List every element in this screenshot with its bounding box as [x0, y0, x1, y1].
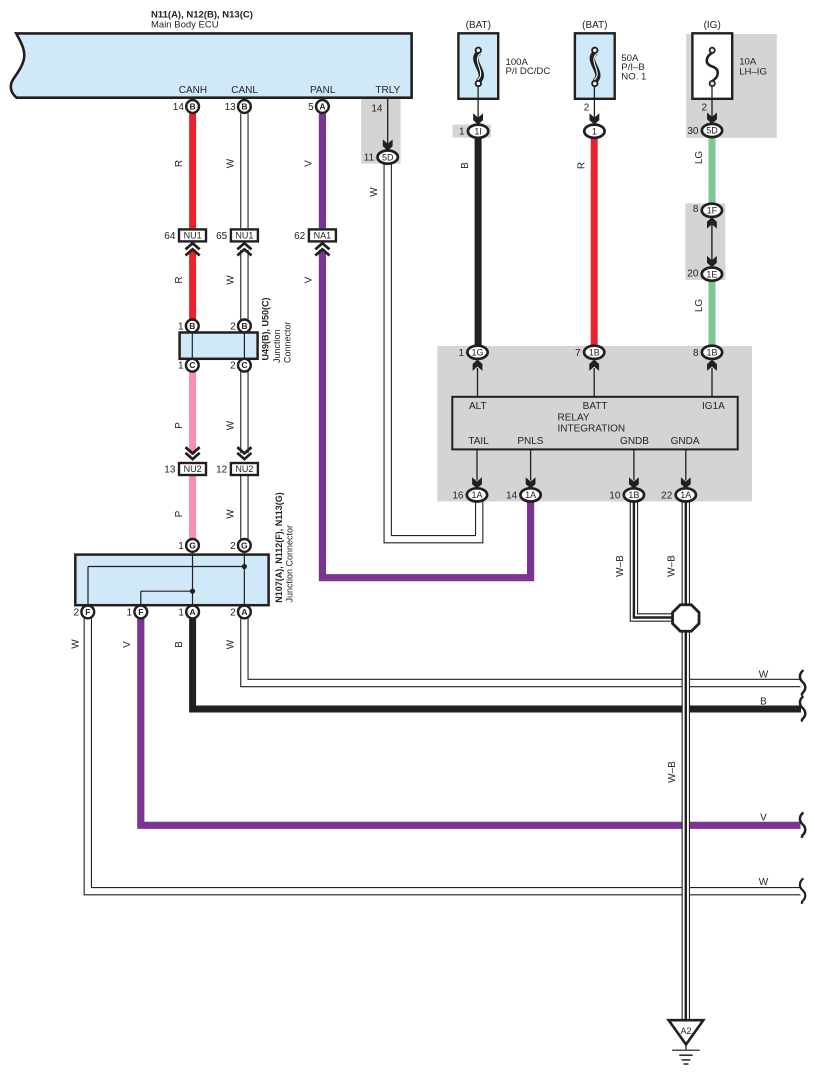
- wire W-B from GNDA to splice: [682, 501, 689, 605]
- fuse F2 lead wire: [593, 86, 595, 118]
- svg-text:2: 2: [584, 103, 590, 114]
- svg-text:62: 62: [294, 231, 306, 242]
- svg-text:1I: 1I: [474, 126, 482, 136]
- break symbol B: [800, 696, 805, 721]
- svg-text:8: 8: [693, 204, 699, 215]
- svg-text:1E: 1E: [706, 269, 717, 279]
- svg-text:NO. 1: NO. 1: [621, 71, 646, 82]
- relay GNDA lead and arrowhead: [681, 449, 691, 488]
- wire CANH red upper segment: [189, 113, 196, 228]
- svg-text:NU1: NU1: [235, 231, 253, 241]
- svg-text:1: 1: [178, 541, 184, 552]
- svg-text:1: 1: [459, 127, 465, 138]
- svg-text:1B: 1B: [628, 490, 639, 500]
- svg-text:Connector: Connector: [283, 321, 293, 363]
- connector oval 1B IG1A: [693, 346, 722, 359]
- svg-text:64: 64: [164, 231, 176, 242]
- svg-text:R: R: [174, 160, 185, 167]
- ECU pin 5 A: [308, 100, 329, 113]
- wire CANL white upper segment: [241, 113, 248, 319]
- svg-text:13: 13: [164, 464, 176, 475]
- gray shade TRLY connector area: [361, 99, 400, 164]
- svg-text:8: 8: [693, 348, 699, 359]
- svg-text:V: V: [304, 160, 315, 167]
- connector oval 1G ALT: [458, 346, 487, 359]
- svg-text:Main Body ECU: Main Body ECU: [151, 20, 219, 31]
- svg-text:GNDB: GNDB: [620, 436, 649, 447]
- svg-text:W–B: W–B: [615, 555, 626, 577]
- svg-text:IG1A: IG1A: [702, 401, 725, 412]
- wire fuse F2 red to BATT: [591, 137, 598, 346]
- svg-text:B: B: [760, 697, 767, 708]
- svg-text:22: 22: [661, 490, 673, 501]
- svg-text:PANL: PANL: [310, 85, 336, 96]
- gray shade band connector 1I: [453, 125, 491, 138]
- svg-text:W: W: [71, 639, 82, 649]
- break symbol W bottom: [800, 878, 805, 903]
- svg-text:20: 20: [687, 269, 699, 280]
- svg-text:BATT: BATT: [583, 401, 608, 412]
- wire V from 1F bottom run: [141, 618, 801, 825]
- svg-text:2: 2: [701, 103, 707, 114]
- N107 pin 1 F: [127, 606, 148, 619]
- svg-text:14: 14: [506, 490, 518, 501]
- U49 pin 1 B: [178, 320, 199, 333]
- svg-text:B: B: [174, 641, 185, 648]
- N107 pin 2 A: [230, 606, 251, 619]
- gray shade relay integration area: [437, 346, 752, 502]
- fuse F3 element: [707, 48, 718, 86]
- wire W from 2F bottom run: [84, 618, 800, 895]
- svg-text:W: W: [759, 669, 769, 680]
- svg-text:V: V: [122, 641, 133, 648]
- svg-text:2: 2: [74, 607, 80, 618]
- svg-text:65: 65: [216, 231, 228, 242]
- connector NU2 pin 12: [216, 447, 258, 475]
- svg-text:INTEGRATION: INTEGRATION: [558, 423, 626, 434]
- wire CANL white mid segments: [241, 371, 248, 539]
- svg-text:A2: A2: [680, 1026, 691, 1036]
- svg-text:A: A: [190, 607, 196, 617]
- svg-text:W: W: [226, 275, 237, 285]
- svg-text:V: V: [760, 813, 767, 824]
- svg-text:W–B: W–B: [667, 555, 678, 577]
- svg-text:CANH: CANH: [179, 85, 207, 96]
- connector NU1 pin 64: [164, 229, 206, 255]
- svg-text:B: B: [241, 321, 247, 331]
- connector NA1 pin 62: [294, 229, 336, 255]
- svg-text:N107(A), N112(F), N113(G): N107(A), N112(F), N113(G): [274, 492, 284, 603]
- svg-text:A: A: [241, 607, 247, 617]
- svg-text:NU2: NU2: [184, 464, 202, 474]
- gray shade connectors 1F-1E area: [685, 203, 725, 280]
- U50 pin 2 C: [230, 359, 251, 372]
- connector oval 1E: [687, 268, 722, 281]
- svg-text:2: 2: [230, 361, 236, 372]
- svg-text:1: 1: [178, 361, 184, 372]
- svg-text:1A: 1A: [525, 490, 536, 500]
- fuse F3 arrowhead: [707, 113, 717, 124]
- connector oval 1 fuse F2: [584, 125, 604, 138]
- svg-text:RELAY: RELAY: [558, 413, 590, 424]
- connector oval 1B BATT: [575, 346, 604, 359]
- svg-text:1: 1: [178, 321, 184, 332]
- svg-text:14: 14: [371, 103, 383, 114]
- svg-text:LG: LG: [694, 299, 705, 313]
- relay PNLS lead and arrowhead: [526, 449, 536, 488]
- svg-text:P: P: [174, 510, 185, 517]
- ECU pin 14 B: [173, 100, 199, 113]
- connector oval 5D TRLY: [364, 151, 398, 164]
- svg-text:W: W: [369, 187, 380, 197]
- junction connector U49(B), U50(C) box: [180, 333, 258, 359]
- svg-text:10: 10: [609, 490, 621, 501]
- svg-text:5D: 5D: [382, 152, 394, 162]
- wire W-B splice to ground: [682, 631, 689, 1020]
- wire fuse F3 light green lower: [709, 280, 716, 346]
- svg-text:(IG): (IG): [704, 20, 721, 31]
- relay ALT lead and arrowhead: [473, 360, 483, 397]
- relay integration inner box: [452, 397, 737, 450]
- fuse F3 lead wire: [711, 86, 713, 118]
- connector oval 1I: [459, 125, 488, 138]
- svg-text:C: C: [241, 360, 247, 370]
- gray shade fuse 10A LH-IG area: [686, 34, 777, 138]
- svg-text:1A: 1A: [471, 490, 482, 500]
- connector oval 1A GNDA: [661, 488, 696, 501]
- svg-text:1: 1: [178, 607, 184, 618]
- svg-text:W: W: [226, 639, 237, 649]
- svg-text:B: B: [190, 101, 196, 111]
- svg-text:30: 30: [687, 126, 699, 137]
- svg-text:R: R: [174, 276, 185, 283]
- connector oval 1A PNLS: [506, 488, 541, 501]
- svg-text:7: 7: [575, 348, 581, 359]
- svg-text:13: 13: [225, 102, 237, 113]
- N107 pin 2 G: [230, 539, 251, 552]
- fuse F2 arrowhead: [590, 113, 600, 124]
- svg-text:B: B: [241, 101, 247, 111]
- svg-text:NU2: NU2: [235, 464, 253, 474]
- svg-text:TRLY: TRLY: [375, 85, 400, 96]
- svg-text:TAIL: TAIL: [468, 436, 489, 447]
- relay GNDB lead and arrowhead: [629, 449, 639, 488]
- fuse F1 100A P/I DC/DC box: [458, 33, 498, 99]
- wire PANL violet run to PNLS: [322, 250, 530, 578]
- svg-text:1B: 1B: [589, 348, 600, 358]
- svg-text:G: G: [241, 540, 248, 550]
- svg-text:P: P: [174, 422, 185, 429]
- svg-text:R: R: [577, 162, 588, 169]
- svg-text:W: W: [226, 420, 237, 430]
- svg-text:ALT: ALT: [469, 401, 487, 412]
- wire fuse F3 light green upper: [709, 137, 716, 204]
- svg-text:CANL: CANL: [231, 85, 258, 96]
- junction connector N107 box: [75, 552, 268, 606]
- svg-text:11: 11: [364, 153, 375, 164]
- N107 pin 1 A: [178, 606, 199, 619]
- svg-text:NA1: NA1: [314, 231, 332, 241]
- svg-text:GNDA: GNDA: [671, 436, 700, 447]
- svg-text:Junction: Junction: [272, 329, 282, 363]
- TRLY arrowhead: [383, 139, 393, 150]
- connector 1F-1E pass-through double arrow: [707, 217, 717, 267]
- svg-text:1G: 1G: [471, 348, 483, 358]
- svg-text:B: B: [189, 321, 195, 331]
- relay TAIL lead and arrowhead: [472, 449, 482, 488]
- fuse F2 element: [592, 48, 598, 87]
- relay BATT lead and arrowhead: [589, 360, 599, 397]
- svg-text:LG: LG: [694, 151, 705, 165]
- wire B from 1A bottom run: [193, 618, 801, 709]
- svg-text:5D: 5D: [706, 126, 718, 136]
- svg-text:A: A: [319, 101, 325, 111]
- svg-text:W: W: [226, 509, 237, 519]
- svg-text:NU1: NU1: [184, 231, 202, 241]
- connector NU2 pin 13: [164, 447, 206, 475]
- wire W-B from GNDB to splice: [630, 501, 672, 621]
- svg-text:(BAT): (BAT): [466, 20, 491, 31]
- svg-text:Junction Connector: Junction Connector: [284, 525, 294, 603]
- TRLY lead wire: [387, 99, 389, 145]
- connector oval 1F: [693, 204, 722, 217]
- connector oval 1B GNDB: [609, 488, 644, 501]
- connector NU1 pin 65: [216, 229, 258, 255]
- svg-text:F: F: [138, 607, 143, 617]
- ground A2: [669, 1020, 704, 1064]
- fuse F1 arrowhead: [473, 113, 483, 124]
- svg-text:2: 2: [230, 607, 236, 618]
- fuse F2 50A P/I-B box: [575, 33, 615, 99]
- wire CANH pink segment below NU2: [189, 475, 196, 539]
- svg-text:1: 1: [458, 348, 464, 359]
- splice octagon: [673, 605, 700, 632]
- svg-text:2: 2: [230, 541, 236, 552]
- wire PANL violet upper segment: [319, 113, 326, 228]
- svg-text:W: W: [759, 877, 769, 888]
- svg-text:C: C: [189, 360, 195, 370]
- svg-text:1A: 1A: [680, 490, 691, 500]
- wire TRLY white run to TAIL: [384, 164, 483, 543]
- ECU pin 13 B: [225, 100, 251, 113]
- svg-text:PNLS: PNLS: [517, 436, 543, 447]
- svg-text:5: 5: [308, 102, 314, 113]
- svg-text:V: V: [304, 276, 315, 283]
- svg-text:(BAT): (BAT): [582, 20, 607, 31]
- N107 pin 2 F: [74, 606, 95, 619]
- svg-text:16: 16: [452, 490, 464, 501]
- svg-text:F: F: [85, 607, 90, 617]
- svg-text:2: 2: [230, 321, 236, 332]
- break symbol V: [800, 813, 805, 838]
- svg-text:1F: 1F: [707, 206, 718, 216]
- svg-text:1: 1: [127, 607, 133, 618]
- svg-text:G: G: [189, 540, 196, 550]
- svg-text:14: 14: [173, 102, 185, 113]
- svg-text:W: W: [226, 158, 237, 168]
- svg-text:LH–IG: LH–IG: [739, 66, 767, 77]
- svg-text:B: B: [460, 162, 471, 169]
- svg-text:1: 1: [592, 126, 597, 136]
- break symbol W top: [800, 670, 805, 695]
- Main Body ECU box: [11, 33, 412, 97]
- fuse F1 element: [476, 48, 482, 87]
- U49 pin 2 B: [230, 320, 251, 333]
- connector oval 5D fuse F3: [687, 124, 722, 137]
- wire CANH pink segment above NU2: [189, 371, 196, 453]
- fuse F1 lead wire: [477, 86, 479, 118]
- N107 pin 1 G: [178, 539, 199, 552]
- fuse F3 10A LH-IG box: [692, 33, 732, 99]
- U50 pin 1 C: [178, 359, 199, 372]
- wire W from 2A bottom run: [241, 618, 801, 687]
- svg-text:W–B: W–B: [667, 761, 678, 783]
- relay IG1A lead and arrowhead: [707, 360, 717, 397]
- connector oval 1A TAIL: [452, 488, 487, 501]
- svg-text:P/I DC/DC: P/I DC/DC: [506, 66, 551, 77]
- wire fuse F1 black to ALT: [475, 137, 482, 346]
- svg-text:1B: 1B: [706, 348, 717, 358]
- wire CANH red lower segment: [189, 250, 196, 320]
- svg-text:12: 12: [216, 464, 228, 475]
- svg-text:U49(B), U50(C): U49(B), U50(C): [261, 297, 271, 360]
